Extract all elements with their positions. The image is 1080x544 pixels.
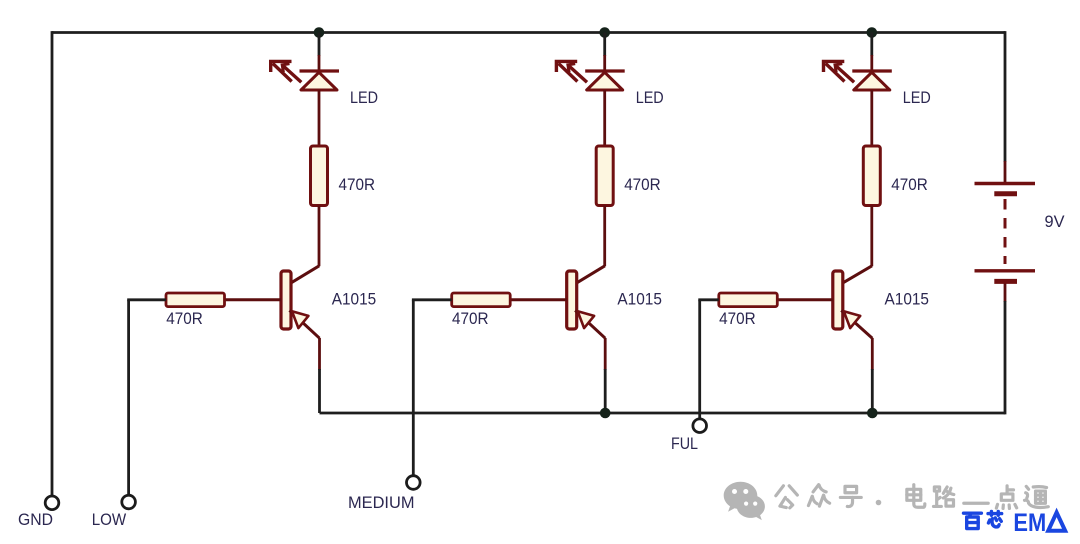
LED D2 triangle xyxy=(587,72,623,90)
resistor R3b 470R horizontal xyxy=(719,293,778,307)
LED D2 emission arrow 1 xyxy=(556,61,577,72)
svg-text:470R: 470R xyxy=(891,176,928,194)
terminal FUL circle xyxy=(693,419,707,433)
transistor Q2 emitter arrow (PNP) xyxy=(578,311,594,328)
svg-text:470R: 470R xyxy=(166,310,203,328)
wire: resistor to collector Q3 xyxy=(870,206,873,267)
wire: base lead Q1 xyxy=(225,298,282,301)
wire: rail to LED D1 xyxy=(318,33,321,57)
wire: left GND drop xyxy=(51,31,54,496)
svg-text:470R: 470R xyxy=(339,176,376,194)
wire: LOW drop xyxy=(127,300,130,495)
svg-text:A1015: A1015 xyxy=(332,291,377,309)
wire: base lead Q3 xyxy=(777,298,833,301)
watermark text 公众号 xyxy=(776,486,797,508)
svg-text:MEDIUM: MEDIUM xyxy=(348,494,415,512)
svg-text:470R: 470R xyxy=(624,176,661,194)
LED D1 triangle xyxy=(301,72,337,90)
wire: emitter drop Q1 xyxy=(318,338,321,370)
watermark text 电路一点通 xyxy=(907,485,925,508)
terminal GND circle xyxy=(45,496,59,510)
LED D1 emission arrow 1 xyxy=(271,61,292,72)
terminal LOW circle xyxy=(122,495,136,509)
transistor Q2 A1015 body bar xyxy=(567,271,577,329)
svg-text:LOW: LOW xyxy=(92,511,127,529)
transistor Q1 collector lead xyxy=(290,266,320,284)
svg-text:LED: LED xyxy=(350,89,378,107)
node: top rail junction 3 xyxy=(867,27,878,38)
transistor Q1 emitter lead xyxy=(290,310,320,338)
wire: emitter drop Q3 xyxy=(871,338,874,370)
wire: rail to LED D2 xyxy=(603,33,606,57)
transistor Q2 collector lead xyxy=(575,266,605,284)
svg-text:A1015: A1015 xyxy=(617,291,662,309)
svg-text:A1015: A1015 xyxy=(885,291,930,309)
svg-text:LED: LED xyxy=(636,89,664,107)
wire: resistor to collector Q2 xyxy=(603,206,606,267)
wire: base feed horizontal 3 xyxy=(698,298,719,301)
svg-text:LED: LED xyxy=(903,89,931,107)
battery BT1 long plate (bottom) xyxy=(975,269,1036,272)
battery BT1 negative plate (bottom short) xyxy=(994,279,1017,284)
LED D2 emission arrow 2 xyxy=(568,64,575,72)
svg-text:9V: 9V xyxy=(1045,213,1065,231)
watermark separator dot xyxy=(876,500,882,506)
wire: MEDIUM drop xyxy=(412,300,415,476)
watermark WeChat icon xyxy=(724,482,765,520)
LED D1 cathode bar xyxy=(300,69,340,72)
wire: LED to resistor R2a xyxy=(603,90,606,147)
wire: base lead Q2 xyxy=(510,298,567,301)
transistor Q3 emitter arrow (PNP) xyxy=(844,311,860,328)
LED D3 cathode bar xyxy=(852,69,892,72)
LED D3 triangle xyxy=(854,72,890,90)
svg-text:470R: 470R xyxy=(719,310,756,328)
wire: top supply rail xyxy=(52,31,1005,34)
node: top rail junction 2 xyxy=(599,27,610,38)
svg-text:EM: EM xyxy=(1013,509,1046,537)
wire: battery - to bottom rail xyxy=(1004,284,1007,303)
wire: base feed horizontal 2 xyxy=(412,298,452,301)
battery BT1 short plate (top) xyxy=(994,191,1017,196)
battery BT1 positive plate (top long) xyxy=(975,182,1036,185)
LED D1 emission arrow 2 xyxy=(282,64,289,72)
wire: right rail to battery + xyxy=(1004,31,1007,162)
resistor R1a 470R vertical xyxy=(311,146,328,206)
transistor Q3 emitter lead xyxy=(841,310,872,338)
transistor Q3 collector lead xyxy=(841,266,872,284)
wire: LED to resistor R3a xyxy=(870,90,873,147)
terminal MEDIUM circle xyxy=(407,476,421,490)
wire: rail to LED D3 xyxy=(870,33,873,57)
node: bottom rail junction 3 xyxy=(867,408,878,419)
transistor Q2 emitter lead xyxy=(575,310,605,338)
node: top rail junction 1 xyxy=(314,27,325,38)
node: bottom rail junction 2 xyxy=(600,408,611,419)
wire: FUL drop xyxy=(698,300,701,419)
svg-text:FUL: FUL xyxy=(671,435,698,453)
logo 百芯 (blue) xyxy=(964,513,982,528)
resistor R2a 470R vertical xyxy=(596,146,613,206)
wire: emitter drop Q2 xyxy=(604,338,607,370)
resistor R1b 470R horizontal xyxy=(166,293,225,307)
svg-text:470R: 470R xyxy=(452,310,489,328)
transistor Q3 A1015 body bar xyxy=(833,271,843,329)
wire: LED to resistor R1a xyxy=(318,90,321,147)
wire: base feed horizontal 1 xyxy=(127,298,166,301)
LED D2 cathode bar xyxy=(585,69,625,72)
resistor R3a 470R vertical xyxy=(863,146,880,206)
resistor R2b 470R horizontal xyxy=(452,293,511,307)
wire: resistor to collector Q1 xyxy=(318,206,321,267)
transistor Q1 emitter arrow (PNP) xyxy=(292,311,308,328)
LED D3 emission arrow 1 xyxy=(824,61,845,72)
battery BT1 dashed cell link xyxy=(1004,199,1007,264)
svg-text:GND: GND xyxy=(18,511,53,529)
LED D3 emission arrow 2 xyxy=(835,64,842,72)
transistor Q1 A1015 body bar xyxy=(281,271,291,329)
wire: bottom emitter rail xyxy=(320,412,1006,415)
